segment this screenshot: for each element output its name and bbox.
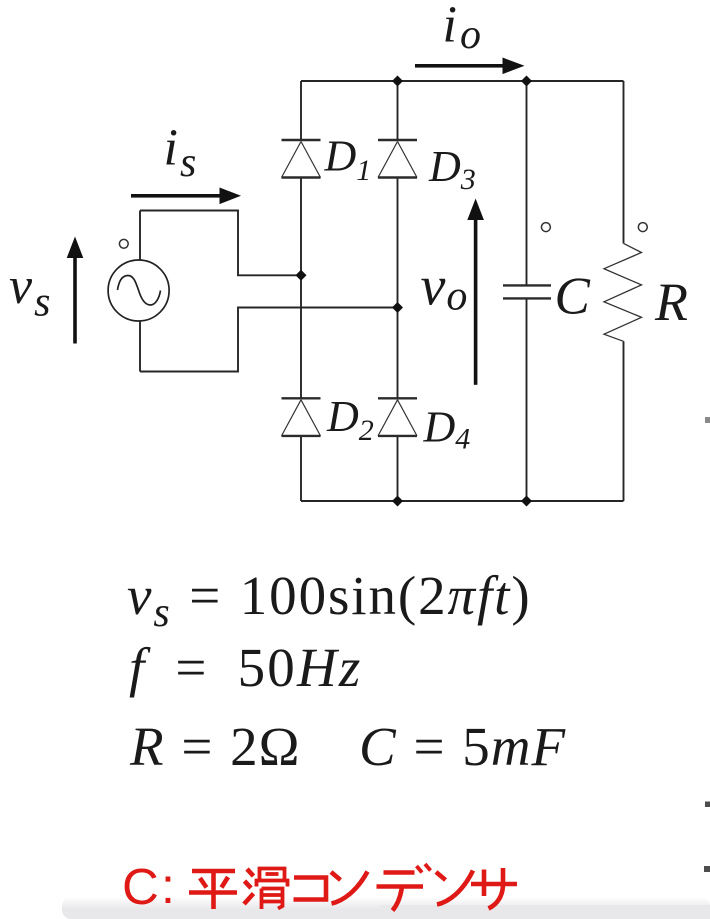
node bottom middle: [392, 496, 403, 507]
wire middle column upper: [397, 81, 399, 140]
resistor R zigzag: [604, 243, 642, 341]
edge mark upper: [705, 802, 710, 808]
diode D3: [378, 140, 417, 178]
wire left column lower: [300, 436, 302, 501]
katakana sa: [471, 868, 517, 909]
svg-text:C: C: [122, 858, 159, 915]
wire middle column lower: [397, 436, 399, 501]
wire capacitor column lower: [526, 298, 528, 501]
arrow i_o: [415, 58, 525, 75]
katakana n: [331, 872, 368, 904]
svg-text:C = 5mF: C = 5mF: [359, 716, 566, 777]
node source lower: [392, 302, 403, 313]
diode D1: [282, 140, 321, 178]
kanji katsu (smooth): [244, 869, 288, 910]
wire resistor column upper: [623, 81, 625, 243]
node bottom capacitor: [521, 496, 532, 507]
terminal mark above R: [638, 223, 647, 232]
wire middle column middle: [397, 178, 399, 399]
wire top bus: [301, 80, 624, 82]
kanji hira (flat): [189, 871, 237, 909]
node top middle: [392, 76, 403, 87]
wire source left lower: [139, 321, 141, 372]
wire source loop lower: [140, 308, 398, 372]
katakana n 2: [436, 871, 473, 905]
katakana de: [377, 864, 431, 911]
svg-text:R = 2Ω: R = 2Ω: [129, 716, 301, 777]
edge mark middle: [705, 417, 710, 423]
svg-text:R: R: [654, 272, 688, 332]
node top capacitor: [521, 76, 532, 87]
AC source sine: [118, 276, 161, 306]
svg-text:vs = 100sin(2πft): vs = 100sin(2πft): [127, 565, 532, 636]
arrow v_o: [467, 199, 484, 385]
wire capacitor column upper: [526, 81, 528, 285]
arrow i_s: [131, 188, 241, 205]
wire source loop top: [140, 211, 301, 276]
diode D4: [378, 398, 417, 436]
node source upper: [296, 270, 307, 281]
svg-text:f = 50Hz: f = 50Hz: [129, 637, 363, 698]
wire resistor column lower: [623, 341, 625, 501]
terminal mark above C: [541, 223, 550, 232]
svg-text::: :: [161, 858, 175, 914]
svg-text:C: C: [555, 267, 591, 325]
wire left column middle: [300, 178, 302, 399]
arrow v_s: [67, 237, 84, 344]
wire bottom bus: [301, 500, 624, 502]
edge mark lower: [704, 866, 710, 872]
wire source left upper: [139, 211, 141, 261]
wire left column upper: [300, 81, 302, 140]
terminal mark near source: [119, 239, 128, 248]
AC source V1 circle: [108, 260, 169, 321]
diode D2: [282, 398, 321, 436]
katakana ko: [294, 878, 327, 900]
capacitor C plates: [503, 285, 551, 298]
